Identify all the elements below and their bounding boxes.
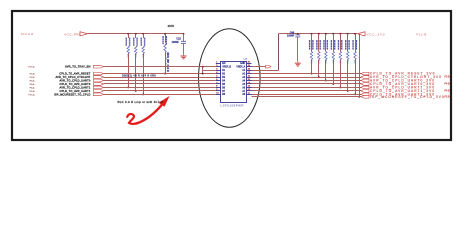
wire CPLD_TO_AVR_UART0 xyxy=(104,83,216,85)
offpage arrow CPLD_TO_AVR_UART0_3V0 xyxy=(361,83,369,86)
svg-text:P14-A R: P14-A R xyxy=(21,32,34,36)
resistor R62 pullup xyxy=(135,33,137,35)
wire VCC_3V0 rail xyxy=(279,33,357,35)
power arrow VCC_PRV xyxy=(80,32,88,36)
offpage arrow AVR_TO_TRAY_EN xyxy=(94,65,104,68)
pin 6 stub left xyxy=(216,80,221,82)
svg-text:VCC_PRV: VCC_PRV xyxy=(64,32,82,36)
svg-text:P4-A: P4-A xyxy=(30,86,35,89)
annotation arrow xyxy=(127,114,136,124)
wire VREF_A to rail riser xyxy=(252,70,279,72)
svg-text:100NF: 100NF xyxy=(172,41,180,44)
pin 7 stub left xyxy=(216,83,221,85)
svg-text:LSF0108PWR: LSF0108PWR xyxy=(221,104,244,108)
pin 10 stub left xyxy=(216,94,221,96)
pin 16 stub right xyxy=(247,77,252,79)
pin 4 stub left xyxy=(216,73,221,75)
svg-text:P2-A: P2-A xyxy=(30,73,35,76)
svg-text:VCC_3V0: VCC_3V0 xyxy=(367,32,386,36)
schematic sheet background xyxy=(0,0,474,180)
svg-text:AVR_TO_TRAY_EN: AVR_TO_TRAY_EN xyxy=(65,65,90,69)
wire ISP_MCURESET_TO_CPLD xyxy=(104,94,216,96)
capacitor C46 xyxy=(297,33,299,35)
svg-text:EN: EN xyxy=(222,63,226,65)
svg-text:CPLD_TO_AVR_RESET: CPLD_TO_AVR_RESET xyxy=(59,72,90,76)
offpage arrow CPLD_TO_AVR_UART1 xyxy=(94,90,104,93)
wire AVR_TO_CPLD_CTRLGHT_3V0 xyxy=(252,77,362,79)
pin 5 stub left xyxy=(216,77,221,79)
svg-text:AVR_TO_CPLD_UART0: AVR_TO_CPLD_UART0 xyxy=(60,79,91,83)
svg-text:CPLD_TO_AVR_UART1: CPLD_TO_AVR_UART1 xyxy=(60,89,91,93)
pin 11 stub right xyxy=(247,94,252,96)
svg-text:U7: U7 xyxy=(244,57,248,61)
pin 19 stub right xyxy=(247,66,252,68)
wire CPLD_TO_AVR_UART0_3V0 xyxy=(252,83,362,85)
svg-text:MCU_ISP_CLK R: MCU_ISP_CLK R xyxy=(166,53,169,73)
wire pullup net row8 xyxy=(358,33,360,35)
pin 18 stub right xyxy=(247,70,252,72)
wire VCC_PRV rail xyxy=(88,33,184,35)
svg-text:GND: GND xyxy=(240,63,245,65)
svg-text:P17-A: P17-A xyxy=(28,66,35,69)
pin 2 stub left xyxy=(216,66,221,68)
resistor R75 pullup xyxy=(339,33,341,35)
svg-text:CPLD_TO_AVR_UART0: CPLD_TO_AVR_UART0 xyxy=(60,82,91,86)
svg-text:P2-B: P2-B xyxy=(445,77,451,79)
wire CPLD_TO_AVR_UART1_3V0 xyxy=(252,90,362,92)
offpage arrow CPLD_TO_AVR_UART0 xyxy=(94,83,104,86)
resistor R64 pullup xyxy=(164,33,166,35)
pin 3 stub left xyxy=(216,70,221,72)
resistor R63 pullup xyxy=(142,33,144,35)
resistor R71 pullup xyxy=(311,33,313,35)
pin 1 stub left xyxy=(216,63,221,65)
offpage arrow AVR_TO_CPLD_UART1_3V0 xyxy=(361,86,369,89)
wire AVR_TO_CPLD_UART1_3V0 xyxy=(252,87,362,89)
svg-text:DBG(2) 4R R A74 R 0R8: DBG(2) 4R R A74 R 0R8 xyxy=(122,74,156,78)
resistor R72 pullup xyxy=(318,33,320,35)
svg-text:ISP_MCURESET_TO_CPLD: ISP_MCURESET_TO_CPLD xyxy=(54,92,91,96)
offpage arrow ISP_MCURESET_TO_CPLD xyxy=(94,93,104,96)
pin 13 stub right xyxy=(247,87,252,89)
svg-text:BLK 9.9 R Lmp or wrR 4K7 R: BLK 9.9 R Lmp or wrR 4K7 R xyxy=(118,100,164,104)
power arrow VCC_3V0 xyxy=(358,32,366,36)
svg-text:VREF_A: VREF_A xyxy=(236,66,245,69)
pin 8 stub left xyxy=(216,87,221,89)
pin 15 stub right xyxy=(247,80,252,82)
offpage arrow AVR_TO_CPLD_CTRLGHT_3V0 xyxy=(361,76,369,79)
ground below C22 xyxy=(183,54,185,56)
wire CPLD_TO_AVR_RESET xyxy=(104,73,216,75)
offpage arrow CPLD_TO_AVR_UART2_3V0 xyxy=(361,93,369,96)
svg-text:P2-A: P2-A xyxy=(30,90,35,93)
offpage arrow AVR_TO_CPLD_UART0_3V0 xyxy=(361,79,369,82)
wire AVR_TO_CPLD_CTRLGHT xyxy=(104,77,216,79)
op IC U7 box xyxy=(221,62,247,103)
svg-text:P4-B: P4-B xyxy=(445,84,451,86)
resistor R77 pullup xyxy=(354,33,356,35)
offpage arrow AVR_TO_CPLD_UART0 xyxy=(94,79,104,82)
pin 17 stub right xyxy=(247,73,252,75)
resistor R74 pullup xyxy=(332,33,334,35)
svg-text:P12-B: P12-B xyxy=(417,32,427,36)
resistor R76 pullup xyxy=(347,33,349,35)
svg-text:ISP_MCURESET_TO_CPLD_3V0: ISP_MCURESET_TO_CPLD_3V0 xyxy=(370,95,445,99)
wire AVR_TO_CPLD_UART0 xyxy=(104,80,216,82)
svg-text:P4-A: P4-A xyxy=(30,80,35,83)
resistor R61 pullup xyxy=(127,33,129,35)
resistor R73 pullup xyxy=(325,33,327,35)
svg-text:P2-A: P2-A xyxy=(30,76,35,79)
pin 12 stub right xyxy=(247,90,252,92)
pin 14 stub right xyxy=(247,83,252,85)
wire CPLD_TO_AVR_UART2_3V0 xyxy=(252,94,362,96)
wire CPLD_TO_AVR_UART1 xyxy=(104,90,216,92)
wire CPLD_TO_AVR_RESET_3V0 xyxy=(252,73,362,75)
offpage arrow CPLD_TO_AVR_UART1_3V0 xyxy=(361,90,369,93)
svg-text:P2-B: P2-B xyxy=(445,97,451,99)
wire AVR_TO_CPLD_UART1 xyxy=(104,87,216,89)
svg-text:P4-A: P4-A xyxy=(30,83,35,86)
offpage arrow CPLD_TO_AVR_RESET_3V0 xyxy=(361,72,369,75)
wire ISP_MCURESET_TO_CPLD_3V0 xyxy=(252,96,362,98)
offpage arrow AVR_TO_CPLD_UART1 xyxy=(94,86,104,89)
pin 9 stub left xyxy=(216,90,221,92)
wire jog junction xyxy=(202,66,204,68)
wire AVR_TO_TRAY_EN xyxy=(104,66,216,68)
offpage arrow ISP_MCURESET_TO_CPLD_3V0 xyxy=(361,95,369,98)
svg-text:100NF: 100NF xyxy=(287,35,295,38)
ground below C46 xyxy=(297,61,299,63)
svg-text:AVR_TO_CPLD_CTRLGHT: AVR_TO_CPLD_CTRLGHT xyxy=(55,75,90,79)
svg-text:P4-B: P4-B xyxy=(445,90,451,92)
annotation ellipse xyxy=(199,29,261,128)
stub arrow GND pin xyxy=(252,66,266,68)
pin 20 stub right xyxy=(247,63,252,65)
offpage arrow AVR_TO_CPLD_CTRLGHT xyxy=(94,76,104,79)
wire AVR_TO_CPLD_UART0_3V0 xyxy=(252,80,362,82)
svg-text:VREF_B: VREF_B xyxy=(222,67,231,69)
capacitor C22 xyxy=(183,33,185,35)
svg-text:AVR_TO_CPLD_UART1: AVR_TO_CPLD_UART1 xyxy=(60,85,91,89)
svg-text:P17-A: P17-A xyxy=(28,93,35,96)
offpage arrow CPLD_TO_AVR_RESET xyxy=(94,72,104,75)
svg-text:4R7R: 4R7R xyxy=(168,24,175,28)
sheet border frame xyxy=(12,11,451,140)
